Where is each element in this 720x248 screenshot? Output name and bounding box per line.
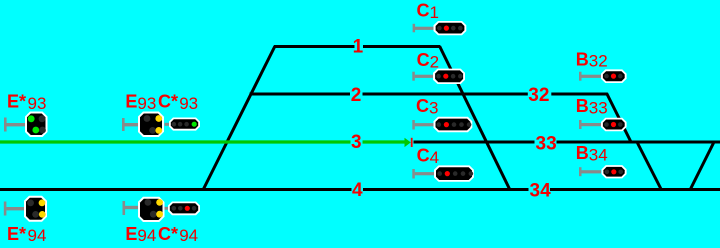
svg-text:B34: B34 (576, 143, 608, 164)
signal C3 mast (412, 120, 433, 130)
svg-text:32: 32 (528, 85, 549, 106)
signal B33 mast (579, 120, 601, 129)
signal C4 head (5 lights, red) (434, 165, 474, 181)
signal C1 mast (413, 24, 434, 33)
signal E*93 mast (4, 118, 25, 132)
node label 3 (track number) (351, 134, 363, 151)
wire: track 3 black continuation / track 33 (414, 141, 720, 144)
svg-text:2: 2 (351, 85, 362, 106)
signal B34 mast (579, 167, 601, 176)
svg-text:C2: C2 (417, 50, 439, 71)
signal E93 head (yellow/yellow) (138, 112, 164, 138)
svg-text:C1: C1 (417, 1, 439, 22)
node label 32 (track number) (528, 86, 552, 103)
svg-text:E93 C*93: E93 C*93 (125, 92, 198, 113)
signal E*94 head (yellow/yellow) (24, 196, 47, 222)
signal C4 mast (412, 169, 434, 179)
signal E94 mast (123, 201, 169, 215)
svg-text:3: 3 (351, 132, 362, 153)
signal C*94 repeater head (4 lights, red) (168, 202, 200, 216)
svg-text:E*93: E*93 (7, 92, 46, 113)
wire: track 4 / 34 horizontal (0, 188, 720, 191)
svg-text:B33: B33 (576, 96, 608, 117)
wire: diagonal D5 crossover V right leg (690, 143, 714, 190)
signal B33 head (3 lights, red) (601, 118, 627, 132)
signal B32 mast (579, 72, 601, 81)
green route arrowhead (405, 138, 411, 147)
signal C3 head (5 lights, red) (434, 117, 473, 132)
wire: diagonal D2 from track 1 end down to track 34 (440, 46, 511, 190)
svg-text:E*94: E*94 (7, 224, 46, 245)
node label 34 (track number) (529, 181, 551, 198)
signal E*93 head (green/green) (25, 112, 48, 138)
svg-text:4: 4 (352, 180, 363, 201)
node label 33 (track number) (535, 134, 557, 151)
wire: track 1 horizontal (274, 45, 440, 48)
svg-text:33: 33 (536, 133, 557, 154)
signal E*94 mast (4, 202, 25, 216)
wire: track 2 / 32 horizontal (250, 93, 608, 96)
svg-text:E94 C*94: E94 C*94 (125, 224, 198, 245)
signal C*93 repeater head (4 lights, green) (169, 118, 200, 131)
red end-of-route tick (411, 138, 413, 147)
signal C1 head (4 lights, red) (434, 21, 467, 35)
signal E94 head (yellow/yellow) (138, 197, 165, 222)
node label 2 (track number) (350, 86, 363, 103)
wire: track 3 green occupied route (0, 140, 405, 143)
node label 1 (track number) (355, 37, 364, 54)
signal C2 mast (412, 72, 433, 81)
wire: diagonal D4 crossover V left leg (638, 143, 662, 190)
signal C2 head (4 lights, red) (433, 69, 465, 84)
wire: diagonal D1 from track 4 up to track 1 (203, 46, 275, 190)
signal E93 mast (122, 118, 169, 131)
svg-text:34: 34 (530, 180, 552, 201)
node label 4 (track number) (352, 181, 364, 198)
signal B34 head (3 lights, red) (602, 165, 627, 178)
svg-text:1: 1 (353, 36, 364, 57)
signal B32 head (3 lights, red) (601, 69, 627, 83)
svg-text:C3: C3 (416, 96, 438, 117)
svg-text:B32: B32 (576, 49, 608, 70)
svg-text:C4: C4 (417, 146, 439, 167)
wire: diagonal D3 track 32 end down to track 33 (607, 93, 632, 142)
